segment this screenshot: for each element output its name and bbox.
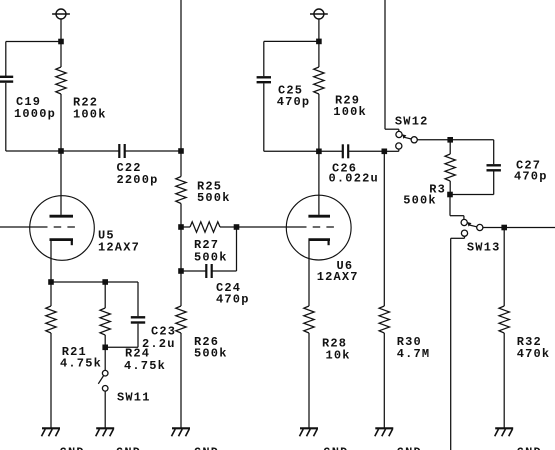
svg-text:500k: 500k	[197, 191, 231, 205]
label R24 value	[124, 347, 166, 373]
label SW13	[467, 241, 501, 255]
wire	[5, 42, 7, 77]
capacitor C26	[343, 144, 348, 158]
tube U5 cathode	[50, 240, 74, 246]
wire	[318, 19, 320, 41]
wire	[125, 150, 181, 152]
wire	[6, 41, 61, 43]
tube U5 plate	[50, 151, 74, 216]
tube U6 plate	[308, 151, 330, 216]
wire	[449, 195, 451, 216]
resistor R21	[46, 282, 56, 428]
node junction F	[234, 224, 240, 230]
ground	[42, 428, 61, 436]
svg-text:GND: GND	[60, 446, 85, 450]
node junction J	[316, 149, 322, 155]
node junction L	[447, 137, 453, 143]
svg-text:GND: GND	[323, 446, 348, 450]
svg-text:1000p: 1000p	[14, 107, 56, 121]
wire	[181, 270, 206, 272]
wire	[450, 216, 464, 220]
svg-text:10k: 10k	[326, 348, 351, 362]
wire	[180, 227, 182, 271]
wire	[493, 140, 495, 164]
wire	[263, 41, 265, 76]
wire	[137, 282, 139, 316]
node junction I	[316, 39, 322, 45]
label GND	[397, 446, 422, 450]
svg-text:100k: 100k	[73, 107, 107, 121]
node junction A	[58, 39, 64, 45]
wire	[236, 227, 238, 271]
power symbol V+ (right)	[310, 9, 328, 19]
label R29 value	[333, 93, 367, 119]
label GND	[517, 446, 542, 450]
ground	[495, 428, 514, 436]
node junction O	[102, 345, 108, 351]
svg-text:0.022u: 0.022u	[329, 172, 379, 186]
node junction C	[178, 148, 184, 154]
resistor R29	[314, 41, 324, 151]
label R26 value	[194, 335, 228, 361]
wire	[348, 150, 384, 152]
node junction E	[178, 268, 184, 274]
ground	[172, 428, 191, 436]
wire	[483, 227, 504, 229]
svg-text:500k: 500k	[194, 250, 228, 264]
capacitor C19	[0, 77, 13, 82]
capacitor C27	[487, 165, 501, 170]
capacitor C22	[119, 144, 124, 158]
wire	[319, 150, 343, 152]
wire	[264, 40, 319, 42]
label GND	[323, 446, 348, 450]
label U5	[98, 228, 140, 254]
svg-text:GND: GND	[397, 446, 422, 450]
svg-text:500k: 500k	[403, 194, 437, 208]
wire	[60, 19, 62, 42]
label C23 value	[142, 324, 176, 351]
svg-text:12AX7: 12AX7	[98, 240, 140, 254]
node junction B	[58, 148, 64, 154]
wire	[180, 0, 182, 151]
resistor R28	[304, 241, 314, 428]
label R32 value	[517, 335, 551, 361]
label C24 value	[216, 281, 250, 307]
wire	[50, 241, 52, 282]
resistor R32	[499, 228, 509, 429]
svg-text:500k: 500k	[194, 346, 228, 360]
wire	[385, 129, 399, 131]
label R25 value	[197, 179, 231, 205]
resistor R27	[181, 222, 237, 232]
wire	[264, 150, 319, 152]
resistor R22	[56, 42, 66, 152]
power symbol V+ (left)	[52, 9, 70, 19]
label SW12	[395, 114, 429, 128]
label R22 value	[73, 95, 107, 121]
svg-text:100k: 100k	[333, 105, 367, 119]
label C26 value	[329, 162, 379, 186]
label GND	[116, 446, 141, 450]
svg-text:470k: 470k	[517, 347, 551, 361]
resistor R24	[100, 282, 110, 347]
ground	[96, 428, 115, 436]
ground	[375, 428, 394, 436]
wire	[504, 227, 555, 229]
svg-text:470p: 470p	[277, 95, 311, 109]
svg-text:GND: GND	[517, 446, 542, 450]
node junction H	[102, 279, 108, 285]
wire	[450, 194, 494, 196]
resistor R25	[176, 151, 186, 227]
label C25 value	[277, 83, 311, 109]
svg-text:2200p: 2200p	[117, 173, 159, 187]
wire	[384, 0, 386, 129]
wire	[493, 171, 495, 194]
label R21 value	[60, 345, 102, 370]
svg-text:4.75k: 4.75k	[60, 356, 102, 370]
wire	[263, 83, 265, 151]
wire	[212, 270, 237, 272]
label R27 value	[194, 238, 228, 264]
svg-text:GND: GND	[116, 446, 141, 450]
switch SW13	[451, 219, 483, 238]
svg-text:GND: GND	[194, 446, 219, 450]
tube U6 cathode	[308, 240, 330, 246]
label C19 value	[14, 95, 56, 121]
node junction M	[447, 192, 453, 198]
node junction D	[178, 224, 184, 230]
svg-text:470p: 470p	[216, 292, 250, 306]
svg-text:SW13: SW13	[467, 241, 501, 255]
capacitor C23	[131, 317, 145, 322]
tube U6 grid	[237, 226, 335, 228]
wire	[105, 324, 138, 348]
resistor R26	[176, 271, 186, 428]
wire	[61, 150, 119, 152]
resistor R30	[379, 151, 389, 428]
node junction G	[48, 279, 54, 285]
label R3 value	[403, 182, 446, 207]
svg-text:2.2u: 2.2u	[142, 337, 176, 351]
svg-text:SW12: SW12	[395, 114, 429, 128]
label GND	[60, 446, 85, 450]
label GND	[194, 446, 219, 450]
node junction N	[501, 225, 507, 231]
wire	[5, 83, 7, 151]
capacitor C24	[206, 264, 211, 278]
wire	[6, 150, 61, 152]
label SW11	[117, 390, 151, 404]
wire	[417, 139, 450, 141]
label R30 value	[397, 335, 431, 361]
ground	[300, 428, 319, 436]
wire	[450, 139, 494, 141]
resistor R3	[445, 140, 455, 195]
tube U5 envelope	[30, 196, 95, 261]
wire	[51, 281, 138, 283]
node junction K	[382, 149, 388, 155]
svg-text:4.75k: 4.75k	[124, 359, 166, 373]
capacitor C25	[257, 77, 271, 82]
wire	[450, 238, 452, 450]
tube U6 envelope	[286, 195, 351, 260]
svg-text:470p: 470p	[514, 170, 548, 184]
svg-text:4.7M: 4.7M	[397, 347, 431, 361]
label C22 value	[117, 161, 159, 187]
label U6	[317, 259, 359, 284]
label C27 value	[514, 158, 548, 183]
svg-text:SW11: SW11	[117, 390, 151, 404]
svg-text:12AX7: 12AX7	[317, 270, 359, 284]
switch SW12	[384, 131, 417, 151]
tube U5 grid	[0, 226, 77, 228]
label R28 value	[322, 337, 351, 363]
switch SW11	[98, 347, 108, 428]
